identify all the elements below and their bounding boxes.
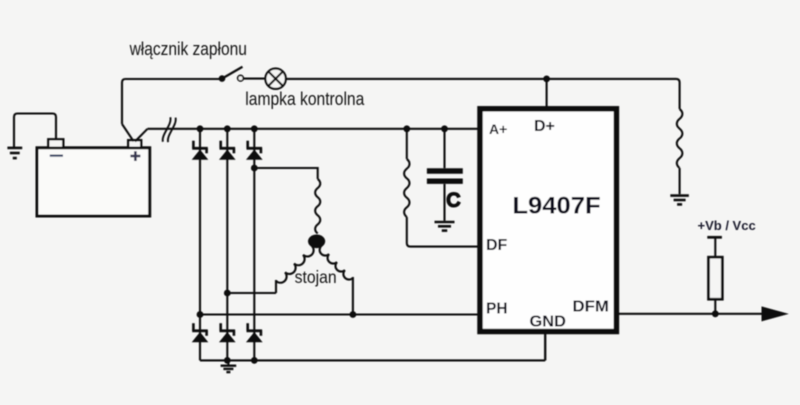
svg-text:DF: DF <box>486 237 508 254</box>
svg-text:+Vb / Vcc: +Vb / Vcc <box>698 218 756 233</box>
svg-text:GND: GND <box>530 314 566 331</box>
svg-text:lampka kontrolna: lampka kontrolna <box>245 89 365 109</box>
svg-text:DFM: DFM <box>573 299 609 316</box>
svg-text:włącznik zapłonu: włącznik zapłonu <box>129 39 247 59</box>
svg-text:PH: PH <box>486 301 508 318</box>
svg-text:stojan: stojan <box>295 267 337 287</box>
svg-text:C: C <box>447 191 461 212</box>
svg-text:L9407F: L9407F <box>512 192 600 219</box>
svg-text:A+: A+ <box>489 121 507 137</box>
svg-text:D+: D+ <box>534 118 555 135</box>
